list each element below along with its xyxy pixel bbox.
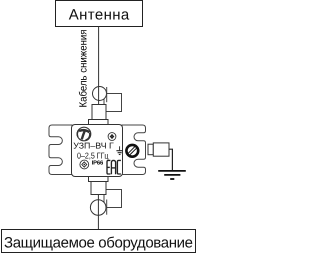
right mounting flange xyxy=(122,125,146,175)
screw top-right (phillips) xyxy=(108,133,116,141)
ground bolt screw xyxy=(126,145,138,157)
terminal lug blade xyxy=(153,143,169,156)
earth mark on label xyxy=(116,146,123,154)
EAC conformity mark xyxy=(107,160,121,174)
bottom connector body xyxy=(91,182,106,195)
wire through top connector xyxy=(98,87,100,105)
bottom connector nut xyxy=(90,200,106,216)
ground symbol xyxy=(158,171,186,179)
top connector body xyxy=(92,105,106,120)
bottom connector loop xyxy=(104,190,122,208)
wire: to protected equipment xyxy=(97,195,99,230)
wire: earth conductor xyxy=(169,149,172,170)
protected equipment block xyxy=(2,230,196,253)
surge protector body (УЗП-ВЧ Г) xyxy=(72,125,123,177)
svg-text:УЗП–ВЧ Г: УЗП–ВЧ Г xyxy=(73,141,114,151)
manufacturer logo xyxy=(77,127,91,141)
top connector nut xyxy=(93,87,107,101)
antenna block xyxy=(56,1,143,27)
screw bottom-left (diamond) xyxy=(80,160,89,169)
top connector loop xyxy=(104,94,122,112)
wire: antenna down-lead xyxy=(98,27,100,87)
top connector boss xyxy=(89,120,109,125)
svg-text:IP66: IP66 xyxy=(92,160,104,167)
svg-text:Кабель снижения: Кабель снижения xyxy=(78,30,90,108)
top connector flat xyxy=(106,87,108,102)
terminal lug crimp xyxy=(148,144,153,155)
left mounting flange xyxy=(49,125,72,175)
svg-text:Защищаемое оборудование: Защищаемое оборудование xyxy=(4,234,193,251)
svg-text:0–2,5 ГГц: 0–2,5 ГГц xyxy=(77,150,109,160)
bottom connector flat xyxy=(106,200,108,215)
bottom connector boss xyxy=(89,177,109,182)
svg-text:Антенна: Антенна xyxy=(69,6,130,23)
